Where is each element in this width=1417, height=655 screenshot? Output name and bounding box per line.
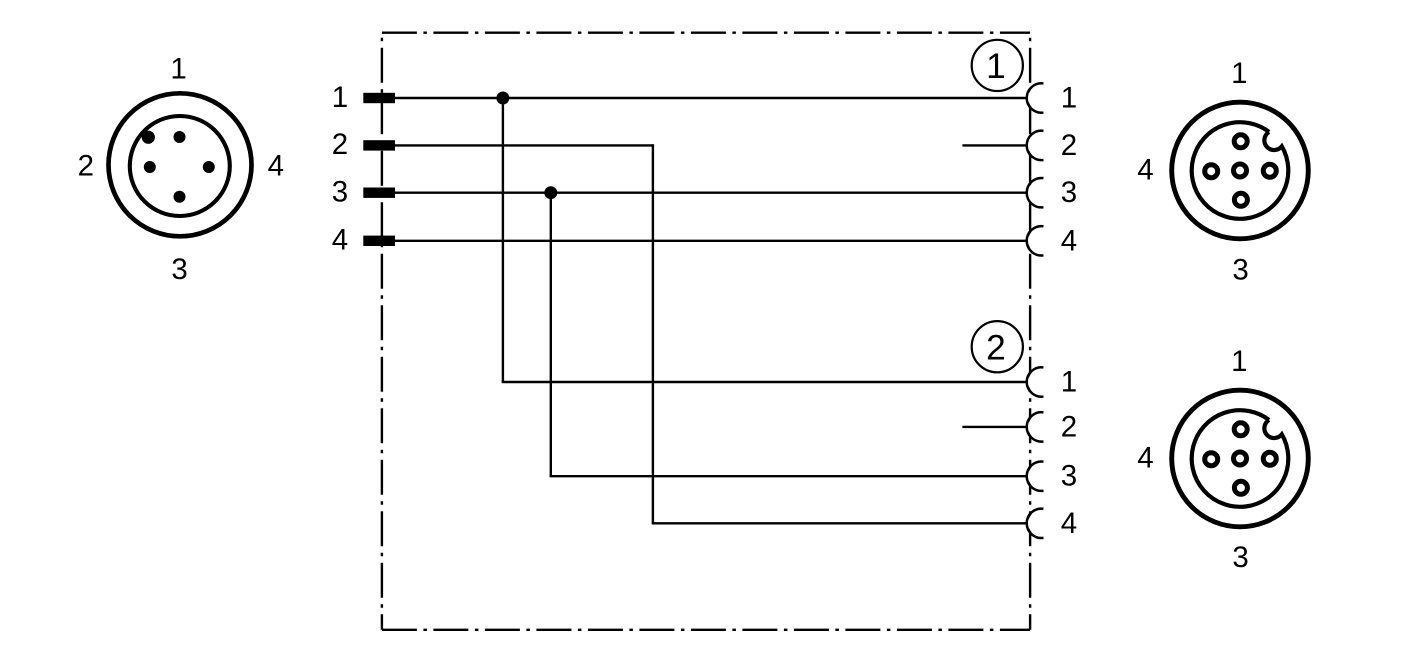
male outer circle xyxy=(109,93,252,236)
svg-text:4: 4 xyxy=(1137,441,1153,474)
svg-text:4: 4 xyxy=(268,150,284,183)
wire: branch drop from wire3 junction xyxy=(550,193,552,477)
female A hole pin 1 xyxy=(1234,135,1247,148)
left terminal 4 bar xyxy=(363,236,395,246)
svg-text:3: 3 xyxy=(1061,176,1077,209)
female B hole pin 1 xyxy=(1234,423,1247,436)
wire: socket1 pin2 stub xyxy=(962,144,1026,146)
svg-text:2: 2 xyxy=(78,150,94,183)
svg-text:3: 3 xyxy=(1232,254,1248,287)
wire: terminal 4 to socket1 pin4 xyxy=(381,240,1027,242)
female A hole pin 3 xyxy=(1234,193,1247,206)
svg-text:2: 2 xyxy=(332,128,348,161)
wire: drop to socket2 pin4 xyxy=(652,522,1027,524)
svg-text:1: 1 xyxy=(1231,345,1247,378)
svg-text:2: 2 xyxy=(1061,410,1077,443)
female B hole pin 4 xyxy=(1205,453,1218,466)
male pin 3 dot xyxy=(174,191,186,203)
svg-text:1: 1 xyxy=(332,81,348,114)
box border right xyxy=(1029,33,1031,630)
distributor box dash-dot border xyxy=(382,33,1030,630)
wire: terminal 2 vertical drop xyxy=(652,144,654,523)
svg-text:3: 3 xyxy=(332,176,348,209)
socket2 pin 2 contact arc xyxy=(1027,412,1055,441)
box border bottom xyxy=(382,629,1030,631)
left terminal 1 bar xyxy=(363,93,395,103)
wire: terminal 2 horizontal run xyxy=(381,144,653,146)
male key bump dot xyxy=(142,131,155,144)
socket1 pin 1 contact arc xyxy=(1027,83,1055,112)
junction dot on wire 1 xyxy=(496,92,509,105)
svg-text:4: 4 xyxy=(1061,224,1077,257)
female A hole pin 4 xyxy=(1205,165,1218,178)
female connector face A inner circle with keyway notch xyxy=(1192,122,1289,219)
box border left xyxy=(381,33,383,630)
male connector face M12 (left) xyxy=(109,93,252,236)
svg-text:1: 1 xyxy=(1231,57,1247,90)
socket 1 circled number xyxy=(972,40,1023,91)
svg-text:1: 1 xyxy=(1061,366,1077,399)
wire: terminal 3 to socket1 pin3 xyxy=(381,191,1027,193)
wire: branch to socket2 pin1 xyxy=(502,381,1027,383)
female connector face B inner circle with keyway notch xyxy=(1192,410,1289,507)
socket1 pin 3 contact arc xyxy=(1027,178,1055,207)
wire: branch to socket2 pin3 xyxy=(550,475,1027,477)
svg-text:3: 3 xyxy=(1232,541,1248,574)
wire: branch drop from wire1 junction xyxy=(502,98,504,382)
male pin 1 dot xyxy=(174,131,186,143)
socket1 pin 2 contact arc xyxy=(1027,131,1055,160)
svg-text:3: 3 xyxy=(1061,460,1077,493)
svg-text:2: 2 xyxy=(1061,129,1077,162)
svg-text:4: 4 xyxy=(1137,153,1153,186)
female A hole pin 2 xyxy=(1263,164,1276,177)
left terminal 3 bar xyxy=(363,188,395,198)
male inner circle xyxy=(130,116,230,216)
male pin 2 dot xyxy=(144,161,156,173)
wire: socket2 pin2 stub xyxy=(962,426,1026,428)
svg-text:4: 4 xyxy=(1061,507,1077,540)
female B hole pin 3 xyxy=(1234,481,1247,494)
male pin 4 dot xyxy=(203,161,215,173)
socket2 pin 4 contact arc xyxy=(1027,509,1055,538)
socket1 pin 4 contact arc xyxy=(1027,226,1055,255)
svg-text:1: 1 xyxy=(1061,82,1077,115)
svg-text:4: 4 xyxy=(332,224,348,257)
socket2 pin 3 contact arc xyxy=(1027,462,1055,491)
svg-text:2: 2 xyxy=(986,328,1006,367)
svg-text:1: 1 xyxy=(170,52,186,85)
female connector face A outer circle xyxy=(1172,102,1309,239)
socket2 pin 1 contact arc xyxy=(1027,367,1055,396)
left terminal 2 bar xyxy=(363,140,395,150)
svg-text:3: 3 xyxy=(171,253,187,286)
socket 2 circled number xyxy=(972,321,1023,372)
svg-text:1: 1 xyxy=(986,47,1006,86)
female B hole pin 2 xyxy=(1263,452,1276,465)
female B hole center xyxy=(1234,452,1247,465)
female A hole center xyxy=(1234,164,1247,177)
box border top xyxy=(382,32,1030,34)
wire: terminal 1 to socket1 pin1 xyxy=(381,97,1027,99)
female connector face B outer circle xyxy=(1172,390,1309,527)
junction dot on wire 3 xyxy=(544,186,557,199)
